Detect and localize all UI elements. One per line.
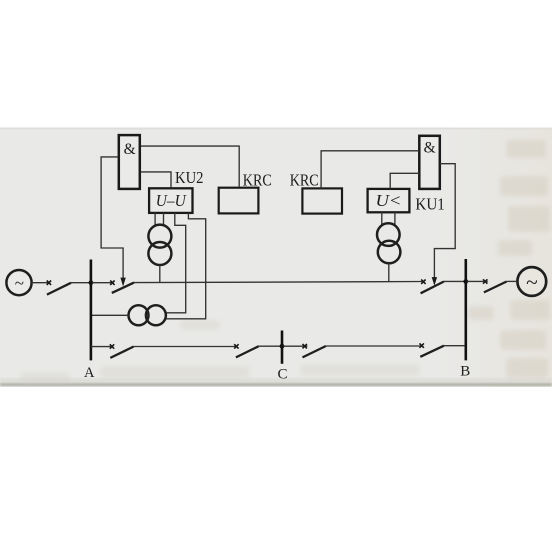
svg-text:KRC: KRC [290, 171, 319, 190]
main tie line [134, 282, 425, 283]
breaker blade QF1 [112, 283, 134, 293]
bypass line segment to QS4 [134, 346, 238, 348]
bypass line: bus C to breaker QS5 [283, 345, 307, 347]
trip arrowhead (left breaker) [120, 278, 125, 287]
wire: G1 to breaker QS1 [32, 282, 50, 284]
wire: left & to KU2 box top [141, 172, 171, 187]
AND gate D1 (left &) [119, 135, 140, 189]
svg-text:KRC: KRC [243, 171, 272, 190]
relay box KRC (right) [302, 188, 342, 213]
wire: right & to KU1 box top [390, 173, 419, 189]
wire: QF2 to bus B [444, 280, 465, 282]
svg-text:B: B [460, 364, 470, 380]
breaker blade QF2 [421, 282, 444, 294]
breaker blade QS6 [420, 346, 444, 357]
bus C [281, 331, 284, 364]
svg-text:KU1: KU1 [415, 195, 445, 214]
wire: right & to KRC right [321, 151, 419, 189]
breaker blade QS1 [47, 283, 71, 295]
trip arrowhead (right breaker) [432, 277, 437, 286]
breaker blade QS3 [110, 347, 133, 358]
bypass line segment to bus B [444, 345, 465, 347]
bleed-through ghost text right column [468, 140, 550, 378]
wire: TV1 to main line [159, 265, 161, 283]
relay box KU1 (U<) [368, 189, 410, 212]
wire: bus B to breaker QS2 [467, 280, 488, 282]
breaker cross QS4 [234, 344, 238, 348]
scanned paper band [0, 128, 552, 387]
wire: QS2 to G2 [507, 280, 518, 282]
wire: right & to breaker trip arrow [434, 164, 455, 278]
node on bus B [463, 279, 468, 284]
bypass line: bus A to breaker QS3 [91, 346, 113, 348]
relay box KU2 (U-U) [149, 188, 192, 213]
svg-text:A: A [84, 365, 95, 381]
bus A [90, 260, 93, 361]
node on bus A [89, 280, 94, 285]
wire: TV3 to main line [388, 263, 390, 282]
relay box KRC (left) [219, 188, 259, 214]
wire: KU2 box to line VT2 lead 2 [165, 213, 206, 319]
svg-text:KU2: KU2 [175, 168, 204, 187]
wire: KU1 box to VT3 (two leads) [382, 212, 395, 225]
bleed-through ghost text bottom band [20, 320, 420, 382]
svg-text:U–U: U–U [156, 191, 187, 210]
breaker cross QS2 [483, 279, 487, 283]
generator G1 [6, 270, 31, 295]
svg-text:~: ~ [15, 274, 24, 293]
voltage transformer TV2 (line side, horizontal) [129, 305, 166, 325]
svg-text:~: ~ [526, 270, 538, 294]
bus B [464, 259, 467, 360]
AND gate D2 (right &) [419, 136, 440, 189]
wire: KU2 box to VT1 (two leads) [155, 213, 163, 226]
breaker cross QS1 [47, 281, 51, 285]
breaker cross QF1 [110, 281, 114, 285]
breaker cross QS6 [420, 343, 424, 347]
wire: left & output to KRC left [141, 146, 239, 187]
svg-text:&: & [424, 139, 436, 156]
breaker blade QS4 [236, 346, 259, 357]
svg-text:C: C [277, 367, 287, 383]
breaker cross QS3 [110, 344, 114, 348]
wire: left & to breaker trip arrow [101, 157, 123, 279]
generator G2 [517, 267, 546, 296]
breaker cross QF2 [421, 280, 425, 284]
svg-text:U<: U< [376, 191, 402, 210]
voltage transformer TV3 (right, stacked) [377, 223, 400, 263]
wire: bus A to TV2 [91, 314, 129, 316]
wire: bus A to breaker QF1 [92, 282, 114, 284]
svg-text:&: & [124, 141, 136, 158]
node on bus C [280, 344, 285, 349]
wire: KU2 box to line VT2 lead 1 [166, 213, 186, 313]
breaker blade QS2 [484, 282, 507, 293]
wire: QS1 to bus A [71, 282, 90, 284]
bypass line segment to QS6 [326, 345, 423, 347]
voltage transformer TV1 (bus A side, stacked) [148, 225, 171, 265]
breaker blade QS5 [303, 346, 326, 357]
breaker cross QS5 [303, 344, 307, 348]
bypass line segment to bus C [259, 345, 281, 347]
